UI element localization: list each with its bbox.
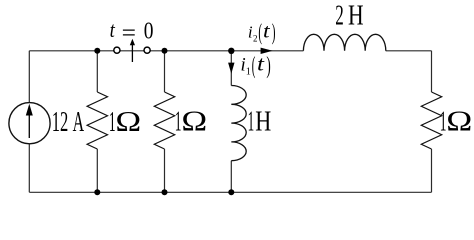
label i1(t) bbox=[241, 52, 271, 80]
resistor R1 1ohm bbox=[87, 92, 107, 149]
label R1 1ohm bbox=[109, 105, 141, 137]
svg-text:=: = bbox=[122, 20, 136, 46]
wire resistor R2 branch bbox=[164, 51, 166, 193]
svg-text:H: H bbox=[348, 0, 364, 31]
label 12 A bbox=[52, 106, 84, 138]
svg-text:Ω: Ω bbox=[181, 105, 207, 137]
wire inductor L1 branch bbox=[230, 51, 232, 193]
current arrow i2 bbox=[261, 48, 273, 54]
svg-text:A: A bbox=[73, 106, 85, 138]
current arrow i1 bbox=[228, 63, 234, 74]
svg-text:t: t bbox=[257, 52, 265, 75]
junction dot bottom R2 bbox=[162, 189, 168, 195]
inductor L2 2H bbox=[303, 34, 385, 51]
label R3 1ohm bbox=[440, 105, 473, 137]
svg-text:1: 1 bbox=[246, 66, 251, 77]
junction dot top R2 bbox=[162, 48, 168, 54]
svg-text:H: H bbox=[255, 105, 271, 137]
resistor R2 1ohm bbox=[154, 92, 174, 149]
wire bottom rail bbox=[29, 191, 431, 193]
svg-text:2: 2 bbox=[335, 0, 344, 32]
wire resistor R1 branch bbox=[96, 51, 98, 193]
wire top rail bbox=[29, 50, 431, 52]
svg-text:): ) bbox=[272, 19, 276, 46]
svg-text:Ω: Ω bbox=[446, 105, 472, 137]
junction dot bottom L1 bbox=[228, 189, 234, 195]
label L2 2H bbox=[335, 0, 363, 32]
junction dot top L1 bbox=[228, 48, 234, 54]
svg-text:): ) bbox=[266, 52, 270, 79]
svg-text:2: 2 bbox=[253, 34, 258, 44]
wire right branch bbox=[431, 51, 433, 193]
label L1 1H bbox=[248, 105, 272, 137]
wire left branch bbox=[28, 51, 30, 193]
svg-text:1: 1 bbox=[248, 105, 255, 137]
svg-text:Ω: Ω bbox=[115, 106, 141, 138]
svg-text:t: t bbox=[263, 19, 271, 42]
switch SW1 bbox=[114, 39, 150, 62]
resistor R3 1ohm bbox=[421, 92, 441, 149]
junction dot top R1 bbox=[94, 48, 100, 54]
svg-text:(: ( bbox=[258, 19, 262, 46]
junction dot bottom R1 bbox=[94, 189, 100, 195]
label R2 1ohm bbox=[175, 105, 208, 137]
svg-text:(: ( bbox=[252, 52, 256, 79]
svg-text:12: 12 bbox=[52, 106, 69, 138]
inductor L1 1H bbox=[231, 86, 246, 161]
current source I1 12A bbox=[9, 103, 50, 144]
label i2(t) bbox=[248, 19, 276, 46]
label t = 0 bbox=[110, 18, 154, 47]
svg-text:0: 0 bbox=[144, 18, 154, 44]
